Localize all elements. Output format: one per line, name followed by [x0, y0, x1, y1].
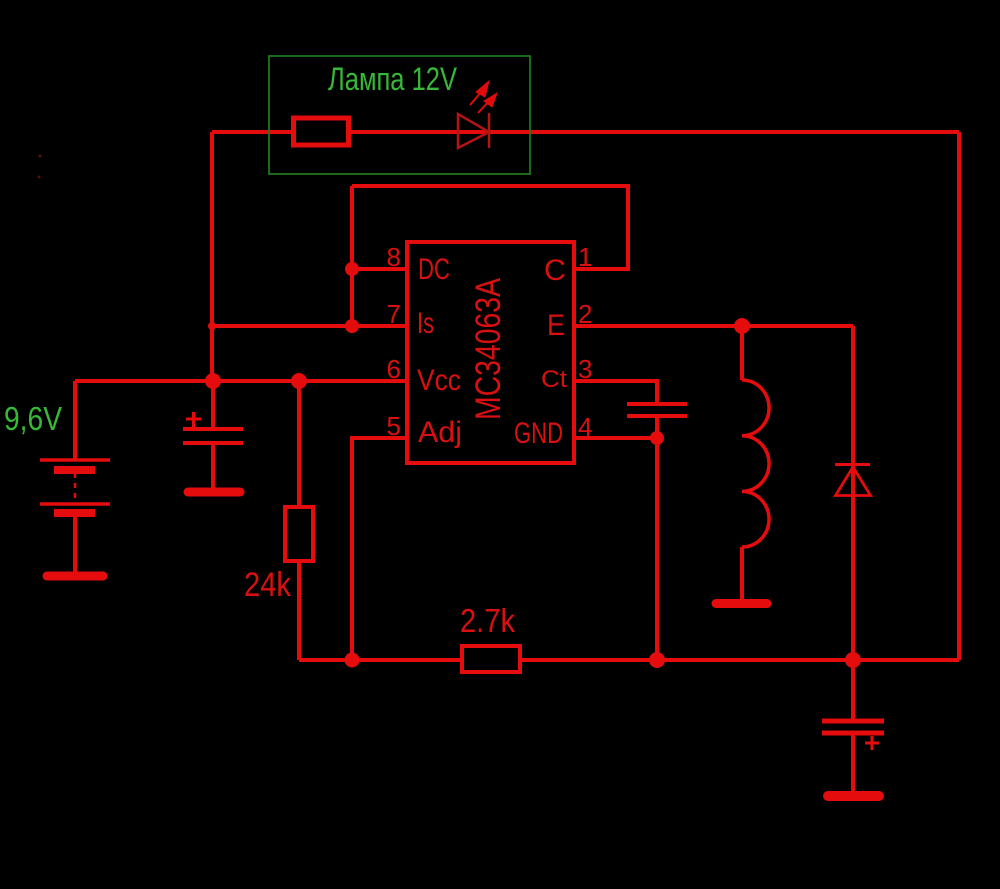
- lamp box: [269, 56, 530, 174]
- svg-text:Лампа 12V: Лампа 12V: [328, 61, 458, 97]
- resistor R1 24k: [285, 507, 313, 561]
- node diode bottom rail: [845, 652, 861, 668]
- node Ct GND junction: [650, 431, 664, 445]
- wire pin8 stub: [352, 267, 407, 271]
- wire inductor top: [740, 326, 744, 380]
- wire GND pin4: [574, 436, 657, 440]
- svg-text:C: C: [544, 254, 566, 287]
- wire right vertical output: [957, 132, 961, 660]
- wire lamp top horizontal: [212, 130, 959, 134]
- wire inductor bottom: [740, 547, 744, 600]
- svg-text:Ct: Ct: [541, 366, 567, 393]
- wire Adj pin5: [352, 438, 407, 660]
- wire top loop C to DC: [352, 186, 628, 269]
- LED arrows: [470, 81, 497, 113]
- svg-text:3: 3: [578, 354, 592, 384]
- svg-text:GND: GND: [514, 417, 563, 450]
- wire battery bottom: [73, 516, 77, 572]
- svg-text:8: 8: [387, 242, 401, 272]
- wire output cap bottom: [851, 734, 855, 792]
- svg-text:Adj: Adj: [418, 416, 462, 449]
- node Vcc input cap: [205, 373, 221, 389]
- svg-text:4: 4: [578, 412, 592, 442]
- svg-text:MC34063A: MC34063A: [469, 277, 508, 420]
- svg-text:24k: 24k: [244, 566, 292, 604]
- svg-text:DC: DC: [418, 253, 450, 286]
- wire battery top: [73, 381, 77, 460]
- wire Is pin7: [212, 324, 407, 328]
- svg-text:Vcc: Vcc: [417, 364, 461, 397]
- node pin8 junction: [345, 262, 359, 276]
- diode D1: [835, 465, 871, 496]
- svg-text:2.7k: 2.7k: [460, 602, 515, 639]
- battery BT1 9.6V: [40, 460, 110, 513]
- wire 24k bottom: [297, 561, 301, 660]
- wire input cap top: [211, 381, 215, 429]
- svg-text:2: 2: [578, 299, 592, 329]
- LED D2: [458, 113, 489, 148]
- IC U1 MC34063A body: [407, 242, 574, 463]
- stray dot artifact: [38, 176, 41, 179]
- wire output cap top: [851, 660, 855, 719]
- inductor L1: [742, 380, 769, 547]
- capacitor C1 input electrolytic: [183, 412, 243, 443]
- ground inductor: [716, 599, 767, 608]
- wire pin8 to pin7 vertical: [350, 186, 354, 326]
- capacitor C3 output electrolytic: [822, 721, 884, 750]
- stray dot artifact: [39, 155, 42, 158]
- svg-text:6: 6: [387, 354, 401, 384]
- wire junction to bottom rail: [655, 438, 659, 660]
- ground input cap: [188, 488, 240, 497]
- node Vcc 24k: [291, 373, 307, 389]
- node GND bottom rail: [649, 652, 665, 668]
- svg-text:1: 1: [578, 242, 592, 272]
- svg-text:7: 7: [387, 299, 401, 329]
- wire Ct cap to junction: [655, 417, 659, 438]
- node Adj bottom rail: [345, 653, 360, 668]
- wire 24k top: [297, 381, 301, 507]
- wire bottom rail: [299, 658, 959, 662]
- node left vertical on Is wire: [208, 322, 216, 330]
- svg-text:E: E: [547, 309, 565, 342]
- capacitor C2 timing Ct: [627, 404, 687, 416]
- wire Vcc pin6: [75, 379, 407, 383]
- resistor R2 2.7k: [462, 646, 520, 672]
- node pin7 junction: [345, 319, 359, 333]
- node E inductor: [734, 318, 750, 334]
- resistor R3 lamp: [294, 118, 349, 145]
- wire left vertical input: [210, 132, 214, 381]
- ground battery: [47, 572, 103, 581]
- wire Ct pin3: [574, 381, 657, 403]
- svg-text:Is: Is: [417, 307, 434, 340]
- wire E pin2: [574, 324, 853, 328]
- svg-text:9,6V: 9,6V: [4, 400, 62, 437]
- ground output cap: [828, 791, 879, 801]
- svg-text:5: 5: [387, 411, 401, 441]
- wire input cap bottom: [211, 443, 215, 489]
- wire diode branch: [851, 326, 855, 660]
